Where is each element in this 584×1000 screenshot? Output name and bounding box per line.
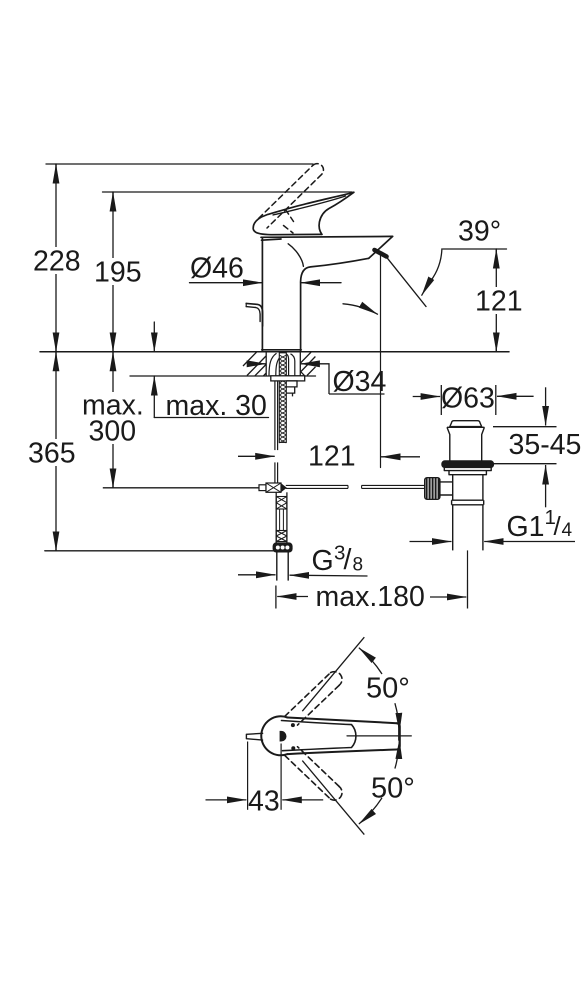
dim O63 ticks bbox=[440, 385, 442, 415]
dim G1 1/4 arrows bbox=[410, 541, 452, 543]
drain upper body bbox=[447, 427, 484, 460]
lower 50deg arc segments with arrows bbox=[395, 740, 400, 769]
braided hose below fitting bbox=[275, 492, 277, 543]
39deg arc with arrow bbox=[422, 249, 442, 295]
faucet spout tip face bbox=[369, 236, 393, 258]
dim O46 arrows bbox=[190, 282, 263, 284]
39deg horizontal reference line bbox=[443, 248, 507, 250]
svg-text:Ø63: Ø63 bbox=[441, 383, 495, 415]
dim G3/8 arrows bbox=[238, 574, 276, 576]
dim 35-45 arrows bbox=[545, 387, 547, 425]
extension line spout height ref bbox=[103, 191, 353, 193]
countertop hatching left block bbox=[243, 352, 266, 376]
dim O63 arrows bbox=[413, 396, 440, 398]
label 121 right halo bbox=[473, 287, 520, 314]
svg-text:/: / bbox=[554, 511, 562, 541]
topview handle top edge bbox=[288, 718, 397, 724]
spout underside and body right edge bbox=[301, 258, 369, 351]
svg-text:43: 43 bbox=[248, 786, 280, 818]
max30 leader and underline bbox=[153, 376, 155, 418]
supply tube below nut bbox=[276, 552, 278, 581]
dashed raised lever bottom edge bbox=[267, 174, 322, 228]
lever handle chamfer line bbox=[273, 196, 346, 215]
threaded shank crosshatched bbox=[279, 353, 286, 443]
svg-text:121: 121 bbox=[475, 286, 523, 318]
topview handle inner outline bbox=[282, 721, 356, 751]
dimension 121 right vertical bbox=[495, 249, 497, 352]
dimension line 195/max300 vertical bbox=[112, 192, 114, 488]
curved leader arrow to extension line bbox=[343, 304, 378, 314]
drain centerline bbox=[467, 550, 469, 580]
hole inner tube left bbox=[269, 353, 277, 376]
topview handle bottom edge bbox=[288, 750, 397, 755]
drain knurled knob bbox=[425, 478, 440, 500]
drain body lower bbox=[452, 475, 454, 501]
drain knob stem bbox=[440, 482, 453, 495]
hook on body left bbox=[246, 303, 262, 326]
topview 50deg lower boundary line bbox=[302, 761, 364, 835]
drain under-flange steps bbox=[444, 468, 491, 475]
label 365 halo bbox=[26, 439, 82, 466]
hole inner tube right bbox=[285, 353, 289, 376]
dim 43 extension lines bbox=[247, 742, 249, 810]
spout tip extension line down bbox=[380, 254, 382, 468]
svg-text:228: 228 bbox=[33, 246, 81, 278]
mounting hole right edge bbox=[299, 352, 301, 376]
topview centerline bbox=[347, 735, 411, 737]
dim O34 hole arrows and leader bbox=[247, 363, 266, 365]
topview tip tick bbox=[398, 716, 400, 740]
label 228 halo bbox=[31, 247, 81, 274]
topview left tab bbox=[246, 733, 262, 740]
svg-text:50°: 50° bbox=[366, 673, 410, 705]
drain tailpipe bbox=[452, 505, 454, 551]
topview 50deg upper boundary line bbox=[302, 637, 364, 711]
countertop bottom surface line bbox=[130, 375, 316, 377]
bottom reference line 365 bbox=[45, 550, 274, 552]
39deg stream line bbox=[384, 254, 426, 307]
svg-text:max.180: max.180 bbox=[316, 581, 425, 613]
aerator dark strip bbox=[375, 250, 387, 257]
topview handle right cap bbox=[397, 723, 400, 749]
dimension line 228/365 vertical bbox=[55, 164, 57, 551]
dim max180 arrows bbox=[277, 596, 308, 598]
upper 50deg arc segments with arrows bbox=[359, 648, 382, 674]
dim 121 mid arrow bbox=[238, 455, 275, 457]
dashed raised lever top edge bbox=[259, 165, 313, 218]
topview dot upper bbox=[291, 723, 295, 727]
pull rod upper bbox=[274, 381, 276, 450]
lever neck S-curve bbox=[319, 192, 354, 234]
svg-text:195: 195 bbox=[94, 257, 142, 289]
svg-text:Ø34: Ø34 bbox=[333, 366, 387, 398]
countertop hatching right block bbox=[301, 352, 316, 375]
svg-text:G1: G1 bbox=[507, 511, 545, 543]
svg-text:300: 300 bbox=[89, 416, 137, 448]
faucet body top cap lines bbox=[261, 235, 393, 238]
body base line bbox=[262, 349, 301, 351]
svg-text:39°: 39° bbox=[458, 216, 501, 248]
label 195 halo bbox=[92, 258, 140, 285]
topview center D mark bbox=[280, 731, 287, 742]
svg-text:35-45: 35-45 bbox=[509, 429, 582, 461]
hose nut G3/8 bbox=[273, 543, 292, 552]
dashed hidden lever lines bbox=[286, 210, 294, 222]
hose braid band lower bbox=[276, 531, 287, 542]
svg-text:365: 365 bbox=[28, 438, 76, 470]
label max300 halo bbox=[80, 392, 148, 444]
mounting hole left edge bbox=[265, 352, 267, 376]
dashed raised lever tip cap bbox=[313, 164, 323, 175]
extension line top (overall height ref) bbox=[46, 163, 313, 165]
topview dashed handle upper bbox=[285, 673, 331, 717]
svg-text:4: 4 bbox=[562, 520, 573, 541]
countertop top surface line bbox=[40, 351, 509, 353]
hose inner lines bbox=[279, 509, 281, 531]
max30 upper arrow bbox=[153, 322, 155, 352]
svg-text:8: 8 bbox=[353, 555, 364, 576]
faucet body left edge bbox=[261, 238, 263, 352]
lever handle top edge and grip bbox=[253, 192, 354, 234]
topview pivot cap arc bbox=[261, 716, 287, 755]
topview dot lower bbox=[291, 746, 295, 750]
drain popup plug cap bbox=[450, 421, 482, 427]
topview dashed handle lower bbox=[285, 755, 331, 799]
drain flange (black) bbox=[442, 461, 494, 468]
dim 35-45 ext lines bbox=[493, 426, 557, 428]
svg-text:max. 30: max. 30 bbox=[166, 390, 267, 422]
rod fitting on faucet rod bbox=[259, 485, 266, 491]
O34 underline bbox=[329, 393, 385, 395]
svg-text:50°: 50° bbox=[371, 773, 415, 805]
linkage rod horizontal right (two segments with break) bbox=[286, 485, 348, 488]
svg-text:/: / bbox=[344, 544, 352, 576]
washer under countertop bbox=[271, 376, 305, 381]
spout neck inner curve bbox=[288, 244, 303, 266]
dim 43 arrows bbox=[206, 799, 247, 801]
svg-text:121: 121 bbox=[308, 441, 356, 473]
pull rod lower bbox=[274, 462, 276, 483]
drain thread band bbox=[452, 500, 484, 505]
svg-text:Ø46: Ø46 bbox=[190, 253, 244, 285]
dim max180 ticks bbox=[275, 586, 277, 609]
hose braid band upper bbox=[276, 497, 287, 510]
svg-text:G: G bbox=[312, 545, 334, 577]
stepped hose nipple bbox=[286, 381, 297, 397]
linkage rod horizontal left bbox=[103, 487, 259, 489]
